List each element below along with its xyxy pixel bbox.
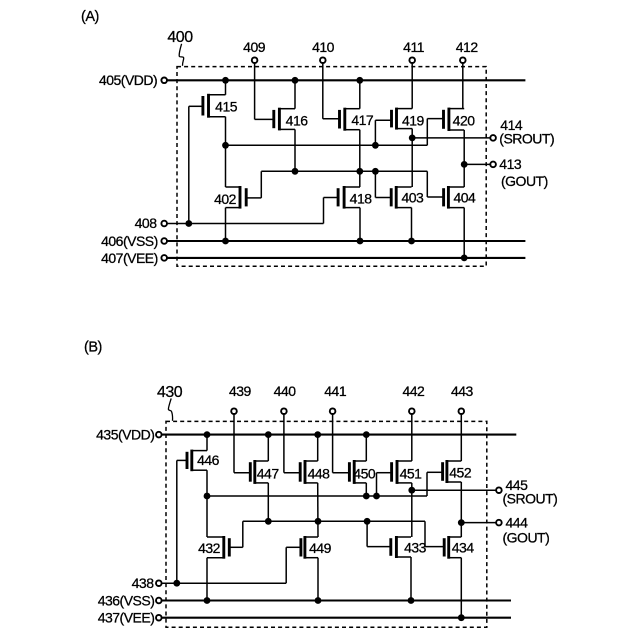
svg-text:403: 403 xyxy=(401,190,424,206)
wire 420 source to 404 drain (GOUT node) xyxy=(463,130,465,187)
wire 439 to gate of 447 xyxy=(234,415,250,473)
junction SROUT B / 451 source / 433 drain xyxy=(408,487,415,494)
wire GOUT output (B) xyxy=(461,522,495,524)
wire 408 net to gate of 418 xyxy=(324,198,339,224)
wire 452 source to 434 drain (GOUT node B) xyxy=(460,482,462,537)
wire 443 to drain of 452 xyxy=(460,415,462,462)
wire 404 source to VEE xyxy=(463,208,465,258)
wire 403 source to VSS xyxy=(411,208,413,241)
junction 408 net / 415 gate xyxy=(185,220,192,227)
wire net B horizontal (B) xyxy=(243,520,425,522)
svg-text:(GOUT): (GOUT) xyxy=(501,173,548,189)
wire net A to gate of 452 xyxy=(427,472,443,496)
junction GOUT / 420 source / 404 drain xyxy=(461,161,468,168)
terminal 441 xyxy=(330,408,336,414)
terminal 409 xyxy=(252,57,258,63)
svg-text:444: 444 xyxy=(506,514,529,530)
svg-text:440: 440 xyxy=(274,383,297,399)
transistor 432 xyxy=(207,536,229,559)
junction VSS / 403 source xyxy=(408,238,415,245)
wire 449 source to VSS xyxy=(317,558,319,601)
terminal 438 xyxy=(156,580,162,586)
wire VEE rail (B) xyxy=(162,617,511,619)
terminal 405 VDD xyxy=(161,78,167,84)
junction VEE / 404 source xyxy=(461,255,468,262)
wire 408 input net xyxy=(168,223,324,225)
svg-text:441: 441 xyxy=(324,383,347,399)
wire 409 to gate of 416 xyxy=(255,64,274,120)
junction GOUT B / 452 source / 434 drain xyxy=(458,519,465,526)
terminal 442 xyxy=(409,408,415,414)
transistor 446 xyxy=(187,450,207,472)
wire SROUT output (A) xyxy=(412,137,490,139)
wire 402 source to VSS xyxy=(225,208,227,241)
wire 417 drain to VDD xyxy=(359,80,361,108)
transistor 452 xyxy=(443,460,462,483)
svg-text:402: 402 xyxy=(214,191,237,207)
svg-text:443: 443 xyxy=(451,383,474,399)
transistor 448 xyxy=(300,460,318,484)
wire 446 drain to VDD xyxy=(206,435,208,451)
leader squiggle for 430 xyxy=(168,398,172,420)
svg-text:448: 448 xyxy=(308,466,331,482)
wire GOUT output (A) xyxy=(464,163,490,165)
terminal 410 xyxy=(320,57,326,63)
wire 446 source to 432 drain (net A) xyxy=(206,470,208,537)
wire VDD rail (B) xyxy=(162,434,516,436)
wire 416 drain to VDD xyxy=(294,80,296,108)
wire 415 source to 402 drain (net A) xyxy=(225,117,227,187)
transistor 402 xyxy=(226,186,247,209)
wire net A horizontal (B) xyxy=(207,495,427,497)
transistor 447 xyxy=(250,460,268,484)
junction 438 net / 446 gate xyxy=(173,580,180,587)
svg-text:413: 413 xyxy=(499,156,522,172)
junction net B / 416 source xyxy=(292,168,299,175)
wire 447 drain to VDD xyxy=(267,435,269,461)
terminal 413 GOUT xyxy=(490,162,496,168)
svg-text:439: 439 xyxy=(229,383,252,399)
transistor 450 xyxy=(349,460,366,484)
svg-text:411: 411 xyxy=(403,39,425,55)
transistor 418 xyxy=(338,186,360,209)
terminal 445 SROUT xyxy=(496,487,502,493)
transistor 403 xyxy=(391,186,411,209)
wire 434 source to VEE xyxy=(460,558,462,618)
wire net A to gate of 451 xyxy=(377,473,392,496)
svg-text:451: 451 xyxy=(400,466,423,482)
svg-text:442: 442 xyxy=(402,383,425,399)
wire 438 input net xyxy=(162,582,286,584)
transistor 415 xyxy=(203,94,226,118)
svg-text:(SROUT): (SROUT) xyxy=(499,131,554,147)
wire VDD rail (A) xyxy=(168,79,526,81)
junction net A left (B) xyxy=(204,493,211,500)
transistor 449 xyxy=(301,536,318,559)
transistor 419 xyxy=(392,108,413,130)
svg-text:436(VSS): 436(VSS) xyxy=(98,592,155,608)
svg-text:446: 446 xyxy=(197,452,220,468)
svg-text:435(VDD): 435(VDD) xyxy=(96,427,154,443)
svg-text:409: 409 xyxy=(243,39,266,55)
svg-text:(B): (B) xyxy=(84,340,102,356)
junction VSS / 418 source xyxy=(357,238,364,245)
terminal 436 VSS xyxy=(156,598,162,604)
dashed block boundary 430 xyxy=(166,421,487,627)
svg-text:410: 410 xyxy=(312,39,335,55)
svg-text:450: 450 xyxy=(353,466,376,482)
svg-text:418: 418 xyxy=(350,191,373,207)
wire net A to gate of 420 xyxy=(427,119,443,146)
terminal 443 xyxy=(459,408,465,414)
svg-text:420: 420 xyxy=(453,112,476,128)
wire gate lead 446 xyxy=(177,459,187,461)
wire VEE rail (A) xyxy=(168,257,526,259)
svg-text:408: 408 xyxy=(135,215,158,231)
svg-text:433: 433 xyxy=(404,539,427,555)
svg-text:416: 416 xyxy=(286,112,309,128)
wire gate lead 415 xyxy=(189,105,203,107)
svg-text:404: 404 xyxy=(453,190,476,206)
wire 440 to gate of 448 xyxy=(284,415,300,473)
terminal 406 VSS xyxy=(161,238,167,244)
junction VDD / 417 drain xyxy=(356,77,363,84)
wire net B to gate of 403 xyxy=(375,171,391,197)
junction net A left xyxy=(222,142,229,149)
wire net B to gate of 434 xyxy=(425,521,444,546)
wire 447 source down to net B xyxy=(267,483,269,521)
junction net A / 450 source xyxy=(363,493,370,500)
svg-text:400: 400 xyxy=(167,29,193,46)
transistor 433 xyxy=(391,536,411,558)
junction net B / 433 gate xyxy=(364,518,371,525)
junction VDD / 446 drain xyxy=(204,431,211,438)
transistor 404 xyxy=(444,186,465,209)
svg-text:452: 452 xyxy=(449,464,472,480)
junction VSS / 402 source xyxy=(222,238,229,245)
wire 448 drain to VDD xyxy=(317,435,319,461)
terminal 412 xyxy=(460,57,466,63)
svg-text:447: 447 xyxy=(257,466,280,482)
svg-text:406(VSS): 406(VSS) xyxy=(101,233,158,249)
transistor 420 xyxy=(444,108,465,131)
svg-text:430: 430 xyxy=(157,384,183,401)
junction VDD / 447 drain xyxy=(265,431,272,438)
junction VEE / 434 source xyxy=(458,614,465,621)
junction net B / 447 source xyxy=(265,518,272,525)
junction VSS / 433 source xyxy=(408,597,415,604)
wire 441 to gate of 450 xyxy=(333,415,350,473)
leader squiggle for 400 xyxy=(179,44,184,66)
wire 408 net riser to gate of 415 xyxy=(188,106,190,223)
junction VDD / 415 drain xyxy=(222,77,229,84)
svg-text:432: 432 xyxy=(198,540,221,556)
svg-text:407(VEE): 407(VEE) xyxy=(101,250,158,266)
junction VDD / 450 drain xyxy=(363,431,370,438)
wire 432 source to VSS xyxy=(206,558,208,601)
svg-text:(GOUT): (GOUT) xyxy=(503,530,550,546)
svg-text:437(VEE): 437(VEE) xyxy=(98,610,155,626)
junction VDD / 448 drain xyxy=(314,431,321,438)
wire VSS rail (A) xyxy=(168,240,526,242)
junction VSS / 432 source xyxy=(204,597,211,604)
wire 416 source down to net B xyxy=(294,129,296,171)
transistor 451 xyxy=(392,460,412,484)
wire net B to gate of 433 xyxy=(367,521,391,546)
transistor 416 xyxy=(274,108,295,131)
svg-text:434: 434 xyxy=(452,539,475,555)
wire 438 net riser to gate of 446 xyxy=(176,460,178,583)
svg-text:419: 419 xyxy=(402,112,425,128)
terminal 414 SROUT xyxy=(490,135,496,141)
wire 450 drain to VDD xyxy=(365,435,367,461)
wire 410 to gate of 417 xyxy=(323,64,340,119)
wire 438 net to gate of 449 xyxy=(286,547,301,583)
terminal 408 xyxy=(161,221,167,227)
wire 412 to drain of 420 xyxy=(462,64,464,109)
svg-text:405(VDD): 405(VDD) xyxy=(99,72,157,88)
svg-text:415: 415 xyxy=(215,99,238,115)
wire 418 source to VSS xyxy=(359,208,361,241)
wire 448 source to 449 drain xyxy=(317,483,319,537)
terminal 444 GOUT xyxy=(496,520,502,526)
wire net A to gate of 419 xyxy=(375,120,391,145)
terminal 440 xyxy=(281,408,287,414)
junction VDD / 416 drain xyxy=(292,77,299,84)
wire 451 source to 433 drain (SROUT node B) xyxy=(411,483,413,537)
dashed block boundary 400 xyxy=(177,67,486,267)
wire net B to gate of 404 xyxy=(427,171,443,197)
transistor 417 xyxy=(340,108,360,131)
wire gate lead 402 to net B xyxy=(246,171,261,198)
terminal 407 VEE xyxy=(161,255,167,261)
svg-text:417: 417 xyxy=(351,112,374,128)
svg-text:(A): (A) xyxy=(81,9,99,25)
wire SROUT output (B) xyxy=(412,489,496,491)
junction net A / 419 gate xyxy=(372,142,379,149)
wire 417 source to 418 drain xyxy=(359,130,361,187)
terminal 411 xyxy=(409,57,415,63)
junction SROUT / 419 source / 403 drain xyxy=(409,135,416,142)
terminal 435 VDD xyxy=(156,432,162,438)
svg-text:438: 438 xyxy=(132,575,155,591)
junction net A / 451 gate xyxy=(373,493,380,500)
wire 415 drain to VDD xyxy=(225,80,227,95)
wire 442 to drain of 451 xyxy=(411,415,413,462)
svg-text:(SROUT): (SROUT) xyxy=(503,491,558,507)
wire 433 source to VSS xyxy=(410,557,412,601)
terminal 437 VEE xyxy=(156,615,162,621)
junction net B / 417 source / 418 drain xyxy=(356,168,363,175)
wire VSS rail (B) xyxy=(162,599,511,601)
wire gate lead 432 to net B xyxy=(229,521,243,547)
wire 450 source down to net A xyxy=(365,483,367,496)
wire net A horizontal xyxy=(226,144,428,146)
svg-text:412: 412 xyxy=(456,39,479,55)
terminal 439 xyxy=(231,408,237,414)
junction net B / 403 gate xyxy=(372,168,379,175)
wire net B horizontal xyxy=(261,170,427,172)
svg-text:449: 449 xyxy=(309,540,332,556)
junction VSS / 449 source xyxy=(315,597,322,604)
wire 419 source to 403 drain (SROUT node) xyxy=(411,129,413,187)
transistor 434 xyxy=(444,536,461,559)
junction net B / 448 source / 449 drain xyxy=(315,518,322,525)
wire 411 to drain of 419 xyxy=(411,64,413,109)
